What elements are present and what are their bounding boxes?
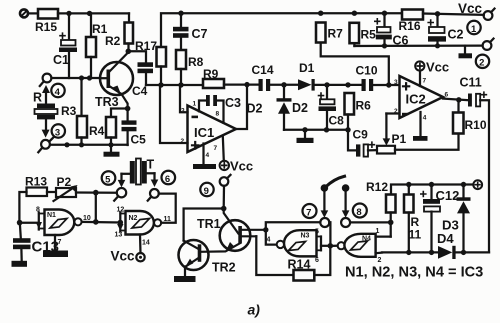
resistor R6 xyxy=(345,93,372,130)
svg-text:1: 1 xyxy=(471,24,477,35)
wire bottom net xyxy=(382,251,438,253)
svg-text:13: 13 xyxy=(115,232,123,239)
circled pin number 2 xyxy=(476,55,489,69)
svg-text:N1: N1 xyxy=(47,212,56,219)
circled pin number 1 xyxy=(467,21,480,35)
svg-text:2: 2 xyxy=(181,138,185,145)
node C7 tap xyxy=(178,11,183,16)
svg-text:Vcc: Vcc xyxy=(111,249,136,264)
svg-text:4: 4 xyxy=(423,115,427,122)
capacitor C13 xyxy=(13,223,59,261)
svg-text:10: 10 xyxy=(83,215,91,222)
diode D1 xyxy=(298,61,315,91)
circled pin number 6 xyxy=(162,171,176,185)
capacitor C2 (electrolytic) xyxy=(428,14,464,46)
resistor R17 xyxy=(135,39,166,85)
node C8 bottom xyxy=(324,127,329,132)
svg-text:N1, N2, N3, N4 = IC3: N1, N2, N3, N4 = IC3 xyxy=(345,265,483,281)
svg-text:1: 1 xyxy=(376,228,380,235)
node TR1 collector tap xyxy=(263,227,268,232)
resistor R1 xyxy=(86,13,108,78)
node R1 tap xyxy=(87,11,92,16)
op-amp IC1 xyxy=(188,106,237,153)
svg-text:N3: N3 xyxy=(301,233,310,240)
wire terminal 9 to TR1 base xyxy=(223,186,226,209)
node base/loop junction xyxy=(221,206,227,212)
node C2 top xyxy=(435,11,440,16)
svg-text:6: 6 xyxy=(315,257,319,264)
svg-text:R16: R16 xyxy=(399,19,421,33)
node C6 tap xyxy=(382,11,387,16)
wire rectifier bottom rail xyxy=(284,129,348,131)
svg-text:R10: R10 xyxy=(465,118,487,132)
svg-text:C3: C3 xyxy=(225,96,241,110)
node output/R10 xyxy=(456,97,461,102)
wire R16 to Vcc terminal xyxy=(423,14,484,15)
circled pin number 7 xyxy=(303,204,317,218)
ground (terminal 2 net) xyxy=(459,46,473,59)
circled pin number 3 xyxy=(52,124,65,138)
N2 pin 14 to Vcc terminal xyxy=(111,235,150,264)
wire node down to N4 pin 1 xyxy=(390,222,392,236)
svg-text:N2: N2 xyxy=(129,215,138,222)
svg-text:C2: C2 xyxy=(448,28,464,42)
svg-text:D1: D1 xyxy=(299,61,315,75)
wire terminal 8 to R12 bottom xyxy=(350,221,391,223)
resistor R8 xyxy=(176,50,204,85)
node feedback/output xyxy=(244,82,249,87)
wire P1 to R10 bottom xyxy=(395,134,459,150)
gate N4 (mirrored) xyxy=(333,228,391,264)
svg-text:C12: C12 xyxy=(436,188,460,203)
svg-text:C6: C6 xyxy=(393,34,409,48)
svg-text:TR1: TR1 xyxy=(197,217,221,231)
arrow to terminal 5 xyxy=(118,174,126,188)
wire emitter junction to R4 xyxy=(111,109,128,118)
plus supply terminal xyxy=(473,180,482,189)
transistor TR3 xyxy=(95,53,133,110)
wire C10 to IC2 + input xyxy=(373,84,399,86)
svg-text:8: 8 xyxy=(356,207,361,218)
wire terminal to R15 xyxy=(28,12,38,14)
svg-text:7: 7 xyxy=(306,207,311,218)
node R17/C4 xyxy=(158,82,163,87)
arrow to terminal 8 xyxy=(342,192,350,218)
transmitter T (resonator symbol) xyxy=(122,158,155,185)
svg-text:4: 4 xyxy=(267,237,271,244)
node R2/TR3/C4 junction xyxy=(126,49,132,55)
node C1 tap xyxy=(66,11,71,16)
wire loop to TR2 collector xyxy=(184,209,224,241)
svg-text:P1: P1 xyxy=(392,132,407,146)
wire R9 to C14 xyxy=(224,83,259,85)
switch (hook switch) xyxy=(321,176,350,192)
wire N1 output to N2 input xyxy=(82,215,121,223)
transistor TR2 xyxy=(179,240,236,275)
resistor R13 xyxy=(25,175,47,197)
svg-text:R12: R12 xyxy=(366,180,388,194)
svg-text:R13: R13 xyxy=(25,175,47,189)
svg-text:3: 3 xyxy=(394,79,398,86)
svg-text:R2: R2 xyxy=(105,34,121,48)
capacitor C14 xyxy=(252,63,274,91)
node R11 top xyxy=(406,182,411,187)
resistor R15 xyxy=(35,9,58,34)
arrow to terminal 7 xyxy=(321,192,329,218)
wire N2 output to terminal 6 xyxy=(159,194,176,223)
svg-text:8: 8 xyxy=(216,111,220,118)
node R5 tap xyxy=(352,11,357,16)
svg-text:2: 2 xyxy=(394,108,398,115)
circled pin number 9 xyxy=(200,183,213,197)
node D3 top xyxy=(461,182,466,187)
wire R7 bias feed xyxy=(321,43,389,86)
node N2 input xyxy=(118,220,124,226)
svg-text:5: 5 xyxy=(105,174,111,185)
capacitor C11 (electrolytic, output) xyxy=(460,76,487,107)
wire ground return (terminal 2 net) xyxy=(354,44,482,47)
svg-text:R4: R4 xyxy=(89,124,105,138)
ground (rectifier) xyxy=(297,130,314,143)
svg-text:Vcc: Vcc xyxy=(458,1,483,16)
N1 pin 7 ground xyxy=(43,235,68,257)
wire TR1 to R14 xyxy=(256,236,293,275)
wire node up to terminal 7 stub xyxy=(329,222,330,246)
capacitor C12 (electrolytic) xyxy=(421,185,460,253)
svg-text:C1: C1 xyxy=(53,53,69,67)
node R6 tap xyxy=(345,82,350,87)
svg-text:C11: C11 xyxy=(460,76,482,90)
svg-text:3: 3 xyxy=(181,108,185,115)
svg-text:R14: R14 xyxy=(288,258,311,272)
wire supply rail (R12 to plus terminal) xyxy=(391,185,473,195)
svg-text:3: 3 xyxy=(55,127,60,138)
svg-text:R: R xyxy=(33,91,42,105)
node R6 bottom / C9 xyxy=(345,127,350,132)
receiver R (resonator symbol with arrows) xyxy=(33,85,58,138)
circled pin number 8 xyxy=(353,204,367,218)
node TR3 emitter / R4 junction xyxy=(125,106,131,112)
op-amp IC2 xyxy=(394,76,443,118)
terminal 6 xyxy=(148,189,159,201)
wire D4 to right edge xyxy=(456,251,489,253)
node C6 bottom xyxy=(382,43,387,48)
svg-text:6: 6 xyxy=(165,174,170,185)
node R1 bottom xyxy=(87,75,92,80)
node R7 feed xyxy=(386,82,391,87)
transistor TR1 xyxy=(197,209,266,252)
wire C11 to right edge drop xyxy=(480,100,489,252)
svg-text:R8: R8 xyxy=(188,55,204,69)
wire junction to C4 xyxy=(128,51,146,62)
ground under C13 xyxy=(12,261,28,267)
terminal 7 xyxy=(320,218,329,227)
svg-text:7: 7 xyxy=(58,239,62,246)
potentiometer P1 xyxy=(377,114,407,154)
IC2 pin 4 ground xyxy=(413,112,428,141)
svg-text:P2: P2 xyxy=(57,175,72,189)
capacitor C1 xyxy=(53,13,77,78)
arrow to terminal 6 xyxy=(151,173,159,187)
capacitor C5 xyxy=(122,109,147,147)
resistor R9 xyxy=(203,67,224,88)
capacitor C3 (pins 1-8) xyxy=(193,95,242,123)
capacitor C9 (electrolytic) xyxy=(348,128,377,157)
svg-text:R7: R7 xyxy=(328,27,344,41)
resistor R11 xyxy=(404,185,422,253)
svg-text:5: 5 xyxy=(315,229,319,236)
terminal 5 xyxy=(114,188,126,201)
svg-text:TR2: TR2 xyxy=(212,261,236,275)
svg-text:Vcc: Vcc xyxy=(426,60,449,75)
resistor R5 xyxy=(350,23,377,46)
resistor R3 xyxy=(61,78,87,145)
node ground tap xyxy=(302,127,307,132)
node D3 bottom xyxy=(461,250,466,255)
svg-text:11: 11 xyxy=(164,216,172,223)
wire pin 3 input (from R8 net) xyxy=(180,85,188,115)
terminal 2 xyxy=(483,39,494,50)
svg-text:D2: D2 xyxy=(247,102,263,116)
resistor R4 xyxy=(89,117,116,145)
svg-text:C8: C8 xyxy=(329,114,345,128)
circled pin number 4 xyxy=(51,84,64,98)
wire top-left rail xyxy=(58,12,129,14)
node C8 tap xyxy=(324,82,329,87)
node C12 top xyxy=(429,182,434,187)
svg-text:a): a) xyxy=(248,302,261,318)
svg-text:2: 2 xyxy=(479,58,484,69)
diode D2 xyxy=(247,85,309,130)
wire R13 left drop xyxy=(19,192,26,223)
wire D1 to C10 xyxy=(315,84,362,86)
wire node down to R14 xyxy=(314,246,330,275)
terminal (line input, top-left) xyxy=(20,9,28,17)
terminal 4 xyxy=(40,74,52,86)
svg-text:14: 14 xyxy=(142,240,150,247)
wire output riser xyxy=(236,85,247,129)
svg-text:R6: R6 xyxy=(356,99,372,113)
svg-text:IC2: IC2 xyxy=(406,92,426,107)
wire pin 2 input xyxy=(160,85,188,145)
svg-text:Vcc: Vcc xyxy=(230,159,253,174)
wire R13 to P2 xyxy=(47,191,56,193)
ground under R4 xyxy=(104,145,120,157)
svg-text:R3: R3 xyxy=(61,104,77,118)
svg-text:4: 4 xyxy=(55,87,61,98)
wire top rail (R17 corner to R16) xyxy=(161,13,402,47)
capacitor C4 xyxy=(132,62,153,98)
svg-text:4: 4 xyxy=(206,152,210,159)
resistor R12 xyxy=(366,180,396,222)
capacitor C6 (electrolytic) xyxy=(375,13,409,47)
node C2 bottom xyxy=(435,43,440,48)
svg-text:R15: R15 xyxy=(35,20,57,34)
diode D4 xyxy=(437,231,456,259)
svg-text:D4: D4 xyxy=(437,231,454,246)
svg-text:8: 8 xyxy=(36,207,40,214)
svg-text:C10: C10 xyxy=(356,64,378,78)
wire bottom rail (terminal 3 row) xyxy=(50,144,128,146)
node xyxy=(64,142,69,147)
svg-text:T: T xyxy=(147,158,155,172)
svg-text:1: 1 xyxy=(193,101,197,108)
svg-text:2: 2 xyxy=(378,257,382,264)
node C12 bottom xyxy=(429,250,434,255)
ground under TR2 xyxy=(174,267,196,283)
wire riser to N1 output xyxy=(95,193,97,222)
resistor R7 xyxy=(316,23,343,43)
capacitor C8 (electrolytic) xyxy=(319,85,345,130)
wire to N1 inputs xyxy=(20,222,39,224)
svg-text:C5: C5 xyxy=(131,133,147,147)
capacitor C7 xyxy=(173,13,208,50)
terminal 9 xyxy=(220,175,231,186)
diode D3 xyxy=(442,185,471,253)
wire terminal 4 to TR3 base xyxy=(52,77,101,79)
gate N2 xyxy=(115,207,162,239)
IC1 pin 7 Vcc xyxy=(214,136,254,174)
svg-text:6: 6 xyxy=(445,92,449,99)
node N1 output riser xyxy=(93,190,99,196)
resistor R2 xyxy=(105,13,133,51)
resistor R14 xyxy=(288,258,315,281)
gate N1 xyxy=(36,207,82,236)
svg-text:C9: C9 xyxy=(353,128,369,142)
gate N3 (mirrored) xyxy=(267,229,331,265)
wire P2 to terminal 5 xyxy=(76,191,117,193)
svg-text:12: 12 xyxy=(117,207,125,214)
wire C14 to D1 xyxy=(270,84,298,86)
svg-text:TR3: TR3 xyxy=(95,95,119,109)
node R11 bottom xyxy=(406,250,411,255)
node R3 bottom xyxy=(79,142,84,147)
terminal 3 xyxy=(38,138,53,153)
svg-text:D2: D2 xyxy=(292,101,308,115)
svg-text:R9: R9 xyxy=(203,67,219,81)
svg-text:C14: C14 xyxy=(252,63,274,77)
resistor R16 (series in rail) xyxy=(399,10,424,34)
wire IC2 output xyxy=(443,92,468,101)
circled pin number 5 xyxy=(102,171,116,185)
IC2 pin 7 Vcc xyxy=(415,60,449,87)
potentiometer P2 xyxy=(54,175,78,201)
svg-text:11: 11 xyxy=(409,228,422,242)
node N3 input / N4 output / R14 xyxy=(328,243,334,249)
node R8 bottom xyxy=(178,82,183,87)
svg-text:IC1: IC1 xyxy=(194,125,214,140)
wire N3 output loop (to terminal 7 net) xyxy=(266,222,321,244)
node R12 bottom / N4 pin1 xyxy=(388,220,394,226)
capacitor C10 xyxy=(356,64,378,92)
node on C13 rail xyxy=(17,220,23,226)
svg-text:R17: R17 xyxy=(135,39,157,53)
node R7 tap xyxy=(318,11,323,16)
svg-text:R5: R5 xyxy=(361,28,377,42)
terminal 8 xyxy=(341,218,350,227)
node R4 bottom xyxy=(108,142,113,147)
svg-text:7: 7 xyxy=(423,78,427,85)
node R3 top xyxy=(79,75,84,80)
node D2 tap xyxy=(281,82,286,87)
svg-text:7: 7 xyxy=(214,145,218,152)
svg-text:C7: C7 xyxy=(192,27,208,41)
node riser on N1 output wire xyxy=(93,219,99,225)
wire IC1 inverting net xyxy=(146,84,203,86)
IC1 pin 4 ground xyxy=(193,144,216,170)
resistor R10 xyxy=(453,100,487,134)
svg-text:9: 9 xyxy=(204,186,209,197)
Vcc terminal 1 xyxy=(458,1,495,20)
